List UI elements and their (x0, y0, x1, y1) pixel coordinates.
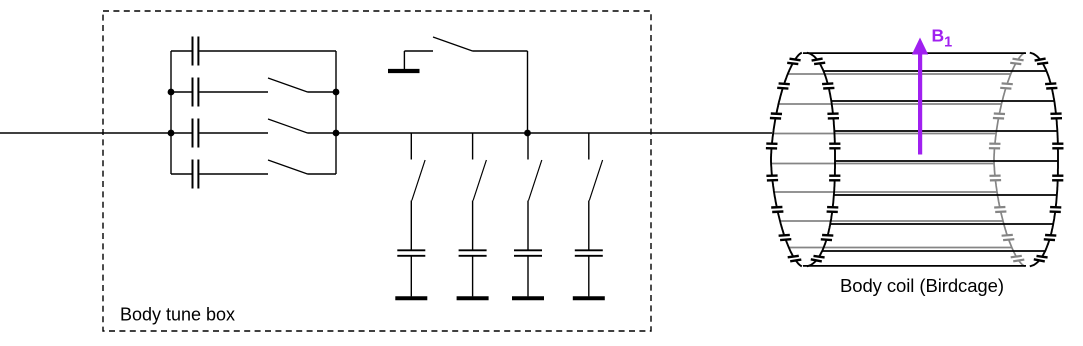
svg-text:Body tune box: Body tune box (120, 305, 235, 325)
svg-text:Body coil (Birdcage): Body coil (Birdcage) (840, 275, 1004, 296)
